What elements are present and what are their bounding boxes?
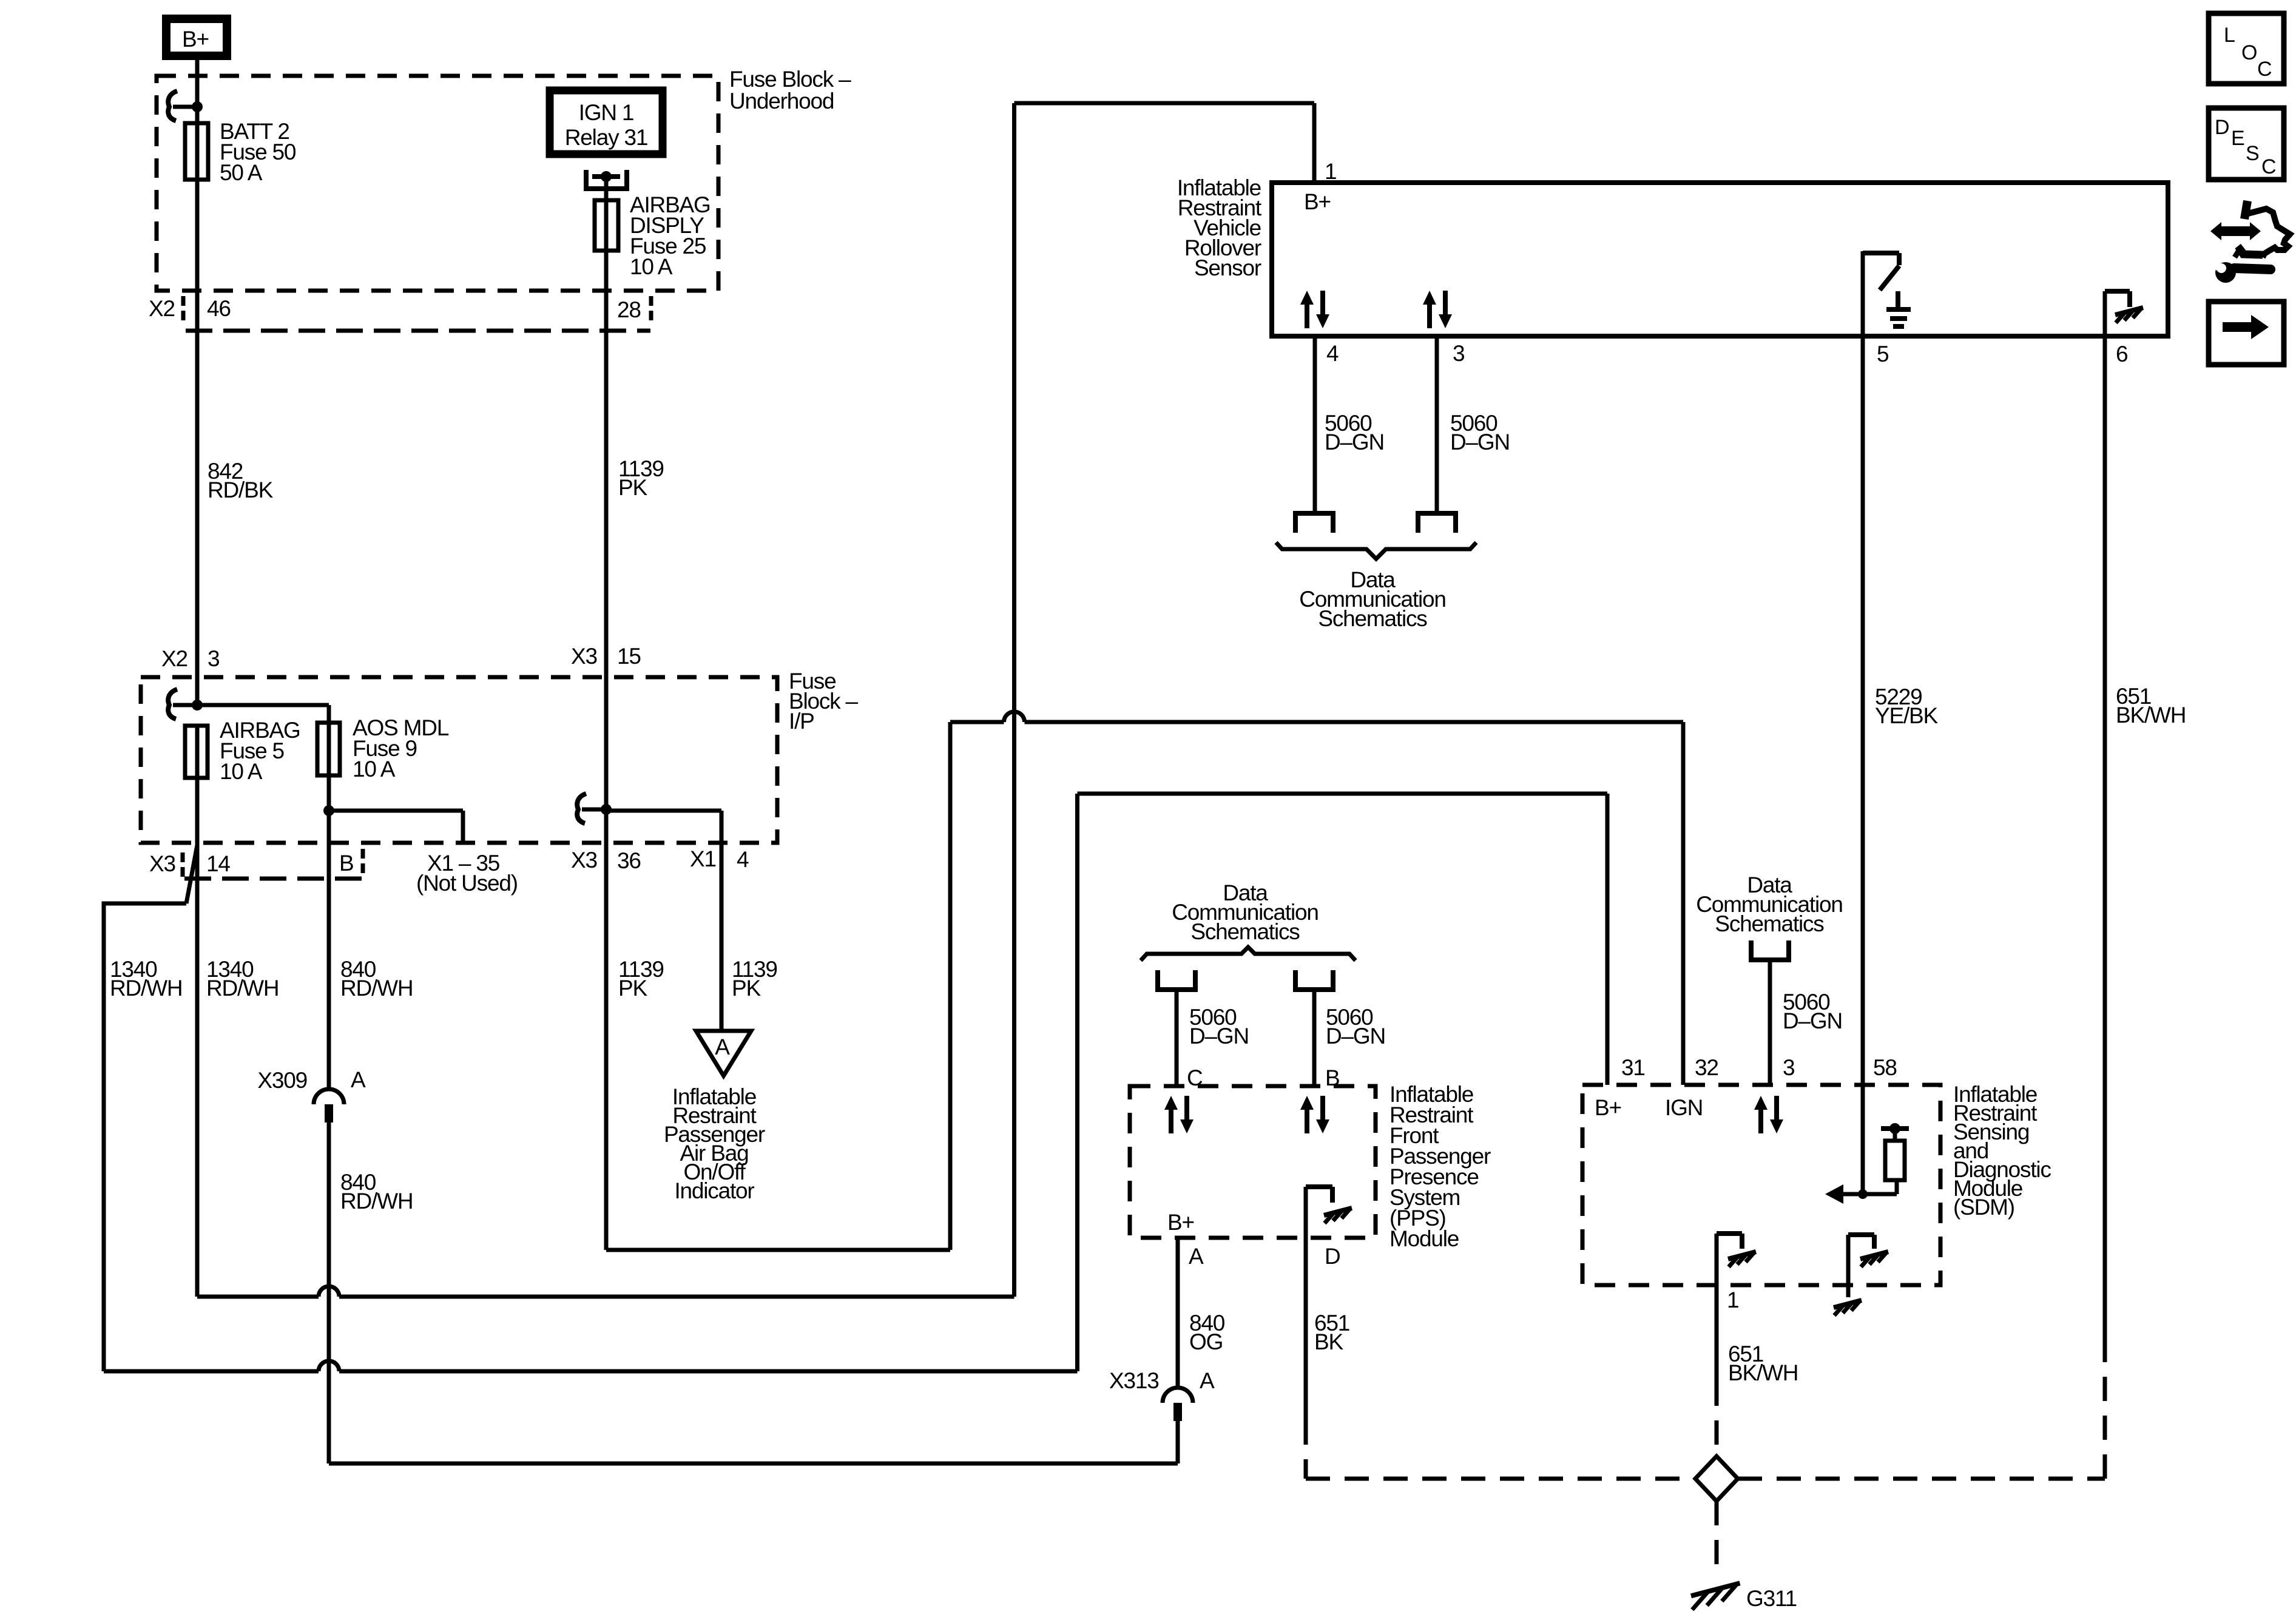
- wire 1340 RD/WH left branch: [104, 903, 186, 1371]
- label 1340 RD/WH (second): [206, 957, 279, 1001]
- node junction dot SDM resistor: [1858, 1189, 1868, 1199]
- pin 3 label SDM: [1783, 1055, 1794, 1080]
- fuse AIRBAG Fuse 5 10A: [185, 726, 208, 778]
- svg-text:B: B: [1325, 1065, 1339, 1090]
- clean ground symbol inside rollover sensor: [1886, 291, 1911, 326]
- svg-text:(Not Used): (Not Used): [416, 871, 518, 896]
- label X1-35 not used: [416, 851, 518, 896]
- wire 842 from B+ to BATT 2 fuse: [195, 60, 200, 123]
- pin tick X2 left: [181, 296, 186, 323]
- svg-text:L: L: [2224, 24, 2235, 47]
- wire diagonal at pin X3-14: [186, 845, 197, 903]
- wire 651 BK/WH pin 6 down: [2103, 336, 2107, 1354]
- label pin B: [339, 851, 353, 876]
- label B+ inside SDM: [1595, 1095, 1621, 1120]
- label X313 pin A: [1109, 1368, 1215, 1393]
- svg-text:G311: G311: [1746, 1586, 1797, 1611]
- label X2 pin 3: [161, 646, 219, 671]
- switch symbol inside rollover sensor: [1863, 251, 1899, 336]
- arrows serial data PPS C: [1164, 1096, 1194, 1133]
- pin 1 label rollover: [1325, 159, 1336, 184]
- wire 5060 to PPS pin B: [1312, 990, 1317, 1086]
- svg-text:RD/WH: RD/WH: [110, 976, 182, 1001]
- inline connector X309: [314, 1089, 344, 1122]
- clip connector at B+ junction: [168, 91, 197, 121]
- wire branch 1139 to pin X1-4: [606, 811, 721, 1031]
- label rollover sensor name: [1177, 175, 1262, 280]
- wire 651 BK PPS pin D down: [1304, 1238, 1308, 1420]
- ground loop 2 inside SDM: [1834, 1235, 1888, 1315]
- svg-text:C: C: [2261, 155, 2276, 178]
- wire 1139 PK (fuse 25 to I/P block): [604, 251, 609, 809]
- svg-text:C: C: [1187, 1065, 1203, 1090]
- wire 840 OG PPS pin A to X313: [1176, 1238, 1180, 1388]
- svg-text:OG: OG: [1189, 1329, 1223, 1354]
- svg-text:X3: X3: [571, 848, 597, 873]
- label 5060 D-GN (pin3): [1450, 411, 1510, 454]
- svg-text:A: A: [1200, 1368, 1215, 1393]
- icon DESC box: [2209, 108, 2284, 180]
- wire 840 RD/WH AOS to X309: [327, 775, 331, 1089]
- svg-text:10 A: 10 A: [220, 759, 263, 784]
- ground loop 1 inside SDM (pin 1): [1717, 1234, 1756, 1285]
- svg-text:15: 15: [617, 644, 641, 669]
- wire 1340 RD/WH straight branch: [195, 778, 200, 1297]
- wire 651 BK/WH from SDM pin 1: [1715, 1285, 1719, 1382]
- node junction dot on 842 wire: [192, 101, 203, 112]
- wire 1340 run vertical up: [1012, 103, 1016, 1297]
- icon right arrow box: [2209, 302, 2284, 365]
- svg-text:A: A: [715, 1035, 730, 1059]
- svg-text:3: 3: [1453, 341, 1464, 366]
- label B+ inside PPS: [1167, 1210, 1194, 1235]
- svg-text:4: 4: [1326, 341, 1339, 366]
- svg-text:BK/WH: BK/WH: [2116, 703, 2186, 727]
- label X3 pin 14: [149, 851, 230, 876]
- node junction dot (1139 to X1-4 branch): [601, 804, 612, 815]
- svg-text:B+: B+: [1595, 1095, 1621, 1120]
- node junction dot on 840 wire: [323, 805, 334, 816]
- icon double arrow with wrench: [2210, 201, 2290, 283]
- dashed wire splice to G311: [1715, 1501, 1719, 1578]
- fuse AIRBAG DISPLY Fuse 25 10A: [595, 200, 618, 251]
- module SDM dashed box: [1582, 1085, 1940, 1285]
- wire branch to AOS MDL fuse: [197, 705, 329, 723]
- pin 28 label: [617, 297, 641, 322]
- svg-text:B+: B+: [1304, 189, 1331, 214]
- label Data Communication Schematics (SDM): [1696, 873, 1842, 936]
- svg-text:O: O: [2241, 41, 2257, 64]
- splice diamond: [1695, 1456, 1738, 1501]
- svg-text:3: 3: [1783, 1055, 1794, 1080]
- label Inflatable Restraint Front Passenger Presence System (PPS) Module: [1389, 1082, 1491, 1251]
- svg-text:Fuse Block –: Fuse Block –: [729, 67, 851, 92]
- svg-text:X313: X313: [1109, 1368, 1159, 1393]
- pin tick B right: [361, 849, 365, 874]
- label Data Communication Schematics (PPS): [1172, 880, 1318, 944]
- wire 5229 YE/BK pin 5 to SDM 58: [1861, 336, 1865, 1085]
- label 1139 PK (upper): [618, 456, 664, 500]
- svg-text:RD/BK: RD/BK: [208, 478, 274, 502]
- svg-text:Schematics: Schematics: [1715, 911, 1824, 936]
- wire 1340 run down to SDM pin 31: [1606, 794, 1610, 1085]
- svg-text:6: 6: [2116, 342, 2127, 366]
- wire 840 RD/WH below X309: [327, 1122, 331, 1463]
- inline connector X313: [1163, 1388, 1193, 1421]
- dashed wire 651 BK/WH to splice: [1715, 1382, 1719, 1456]
- label 5060 D-GN (pin4): [1325, 411, 1384, 454]
- svg-text:D–GN: D–GN: [1450, 430, 1510, 454]
- label X3 pin 15: [571, 644, 641, 669]
- wire stub to pin X1-35 not used: [329, 811, 463, 843]
- fuse AOS MDL Fuse 9 10A: [317, 723, 340, 775]
- wire 5060 to SDM pin 3: [1768, 960, 1772, 1085]
- svg-text:RD/WH: RD/WH: [206, 976, 279, 1001]
- label Data Communication Schematics (top): [1299, 567, 1445, 631]
- pin 32 label SDM: [1695, 1055, 1718, 1080]
- label BATT 2 Fuse 50 50 A: [220, 119, 296, 185]
- pin tick X3-14 left: [181, 852, 185, 878]
- svg-text:Module: Module: [1389, 1226, 1459, 1251]
- wire 1340 run top to pin 1: [1015, 103, 1315, 183]
- label AIRBAG DISPLY Fuse 25 10 A: [630, 192, 711, 279]
- relay IGN 1 Relay 31 box: [550, 90, 663, 154]
- connector strip X2 row dashed line: [186, 329, 650, 333]
- arrows serial data PPS B: [1300, 1096, 1329, 1133]
- svg-text:Sensor: Sensor: [1194, 255, 1261, 280]
- wire 1139 across y2060: [606, 1248, 950, 1252]
- svg-text:58: 58: [1873, 1055, 1897, 1080]
- svg-text:X3: X3: [149, 851, 175, 876]
- fuse BATT 2 Fuse 50 50A: [185, 123, 208, 180]
- label Inflatable Restraint Passenger Air Bag On/Off Indicator: [664, 1084, 765, 1203]
- svg-text:BK/WH: BK/WH: [1728, 1360, 1798, 1385]
- svg-text:PK: PK: [618, 976, 647, 1001]
- svg-text:D–GN: D–GN: [1325, 430, 1384, 454]
- clip connector at 1139 junction: [577, 794, 606, 823]
- label 5060 D-GN (PPS C): [1189, 1005, 1249, 1048]
- wire 842 RD/BK (fuse 50 to I/P block): [195, 180, 200, 705]
- label Fuse Block - I/P: [789, 669, 859, 734]
- pin C label PPS: [1187, 1065, 1203, 1090]
- wire 840 below X313 to bottom run: [329, 1421, 1178, 1463]
- node junction dot (842 to AOS MDL branch): [192, 700, 203, 711]
- label 5229 YE/BK: [1875, 684, 1939, 728]
- label 651 BK/WH (SDM): [1728, 1342, 1798, 1385]
- svg-text:(SDM): (SDM): [1953, 1195, 2014, 1220]
- label IGN inside SDM: [1665, 1095, 1703, 1120]
- pin D label PPS: [1325, 1244, 1340, 1269]
- svg-text:10 A: 10 A: [630, 254, 673, 279]
- label 651 BK: [1314, 1311, 1349, 1354]
- arrows serial data pin 4: [1300, 291, 1329, 328]
- svg-text:X1: X1: [690, 846, 716, 871]
- brace to data communication schematics (top): [1276, 542, 1476, 559]
- label 840 RD/WH (lower): [340, 1170, 413, 1214]
- svg-text:5: 5: [1877, 342, 1889, 366]
- svg-text:D–GN: D–GN: [1783, 1008, 1842, 1033]
- svg-text:YE/BK: YE/BK: [1875, 703, 1939, 728]
- svg-text:C: C: [2257, 58, 2272, 81]
- dashed wire 651 BK to ground junction: [1306, 1420, 1695, 1479]
- pin tick X2 right: [649, 296, 653, 324]
- svg-text:D–GN: D–GN: [1326, 1024, 1385, 1048]
- svg-text:Schematics: Schematics: [1318, 606, 1427, 631]
- svg-text:IGN 1: IGN 1: [579, 100, 634, 125]
- svg-text:4: 4: [737, 847, 749, 872]
- fuse block underhood dashed box: [157, 76, 718, 291]
- wire 5060 pin 4 to DLC terminal: [1313, 336, 1317, 513]
- svg-text:Relay 31: Relay 31: [565, 125, 647, 150]
- chassis ground inside rollover sensor pin 6: [2105, 291, 2143, 336]
- arrow into deployment loop (SDM): [1825, 1184, 1897, 1204]
- wire 1340 run up to y1308: [1075, 794, 1079, 1371]
- power symbol B+ box: [166, 19, 227, 56]
- pin 1 label SDM: [1727, 1288, 1738, 1312]
- wire 1340 run to rollover B+ (horizontal): [197, 1295, 1015, 1299]
- resistor inside SDM: [1881, 1123, 1909, 1194]
- wire 1340 run across y1308: [1078, 792, 1608, 796]
- svg-text:A: A: [351, 1067, 366, 1092]
- svg-text:A: A: [1189, 1244, 1204, 1269]
- label X309 pin A: [257, 1067, 366, 1093]
- svg-text:28: 28: [617, 297, 641, 322]
- label 1340 RD/WH (left): [110, 957, 182, 1001]
- brace to data communication schematics (PPS): [1141, 947, 1356, 960]
- label 840 RD/WH (upper): [340, 957, 413, 1001]
- arrows serial data SDM pin 3: [1754, 1096, 1783, 1133]
- label Inflatable Restraint Sensing and Diagnostic Module (SDM): [1953, 1082, 2051, 1220]
- svg-text:32: 32: [1695, 1055, 1718, 1080]
- svg-text:X3: X3: [571, 644, 597, 669]
- pin 31 label SDM: [1621, 1055, 1645, 1080]
- label X3 pin 36: [571, 848, 641, 873]
- svg-text:10 A: 10 A: [353, 757, 396, 781]
- DLC terminal SDM: [1749, 940, 1791, 960]
- label AOS MDL Fuse 9 10 A: [353, 715, 449, 781]
- fuse block I/P dashed box: [141, 677, 777, 843]
- DLC terminal pin 4: [1293, 513, 1335, 533]
- relay output connector bracket: [584, 170, 629, 200]
- svg-text:D: D: [1325, 1244, 1340, 1269]
- pin 6 label rollover: [2116, 342, 2127, 366]
- label 1139 PK at X1-4 branch: [732, 957, 777, 1001]
- label 840 OG: [1189, 1311, 1225, 1354]
- wire 1139 down to SDM pin 32: [1681, 722, 1686, 1085]
- label 5060 D-GN (SDM): [1783, 990, 1842, 1033]
- svg-text:X309: X309: [257, 1068, 307, 1093]
- label B+ inside rollover box: [1304, 189, 1331, 214]
- wire 1139 across y1190 with hop: [950, 712, 1683, 722]
- label Fuse Block - Underhood: [729, 67, 851, 113]
- svg-text:I/P: I/P: [789, 709, 814, 734]
- module Inflatable Restraint Vehicle Rollover Sensor box: [1272, 183, 2168, 336]
- svg-text:Underhood: Underhood: [729, 89, 834, 113]
- svg-text:BK: BK: [1314, 1329, 1343, 1354]
- ground G311: [1691, 1583, 1797, 1611]
- svg-text:50 A: 50 A: [220, 160, 263, 185]
- wire 5060 pin 3 to DLC terminal: [1435, 336, 1439, 513]
- DLC terminal PPS B: [1293, 970, 1335, 990]
- svg-text:PK: PK: [618, 475, 647, 500]
- svg-text:36: 36: [617, 848, 641, 873]
- svg-text:RD/WH: RD/WH: [340, 1189, 413, 1214]
- label X1 pin 4: [690, 846, 749, 872]
- svg-text:14: 14: [206, 851, 230, 876]
- chassis ground inside PPS: [1306, 1187, 1352, 1238]
- wire 1139 down to y2060: [604, 811, 609, 1250]
- svg-text:46: 46: [207, 296, 231, 321]
- svg-text:E: E: [2231, 127, 2244, 150]
- wire 5060 to PPS pin C: [1175, 990, 1179, 1086]
- label X2 (row 46/28): [149, 296, 175, 321]
- DLC terminal PPS C: [1155, 970, 1198, 990]
- pin 5 label rollover: [1877, 342, 1889, 366]
- svg-text:Schematics: Schematics: [1190, 919, 1300, 944]
- svg-text:3: 3: [208, 646, 219, 671]
- connector strip X3-14/B dashed line: [184, 877, 364, 881]
- svg-text:S: S: [2246, 142, 2259, 165]
- arrows serial data pin 3: [1423, 291, 1452, 328]
- pin A label PPS: [1189, 1244, 1204, 1269]
- indicator feed wire 1139 PK: [618, 957, 664, 1001]
- indicator triangle A: [696, 1031, 751, 1076]
- pin B label PPS: [1325, 1065, 1339, 1090]
- svg-text:1: 1: [1727, 1288, 1738, 1312]
- pin 3 label rollover: [1453, 341, 1464, 366]
- label AIRBAG Fuse 5 10 A: [220, 718, 300, 784]
- module PPS dashed box: [1130, 1086, 1376, 1238]
- pin 46 label: [207, 296, 231, 321]
- svg-text:D–GN: D–GN: [1189, 1024, 1249, 1048]
- label 5060 D-GN (PPS B): [1326, 1005, 1385, 1048]
- wire pin 58 inside SDM: [1861, 1085, 1865, 1194]
- svg-text:IGN: IGN: [1665, 1095, 1703, 1120]
- svg-text:X2: X2: [149, 296, 175, 321]
- pin 4 label rollover: [1326, 341, 1339, 366]
- wire 1340 run to SDM B+ (horizontal): [104, 1369, 1078, 1374]
- pin 58 label SDM: [1873, 1055, 1897, 1080]
- dashed wire riser to 651 BK/WH: [2103, 1354, 2107, 1479]
- wire hop over 840 wire (y2137): [319, 1286, 339, 1297]
- wire hop over 840 wire (y2260): [319, 1361, 339, 1371]
- icon LOC box: [2209, 13, 2284, 84]
- svg-text:D: D: [2215, 116, 2229, 139]
- svg-text:RD/WH: RD/WH: [340, 976, 413, 1001]
- svg-text:1: 1: [1325, 159, 1336, 184]
- label 842 RD/BK: [208, 459, 274, 502]
- svg-text:B+: B+: [1167, 1210, 1194, 1235]
- svg-text:X2: X2: [161, 646, 187, 671]
- clip connector at AOS junction: [168, 689, 197, 719]
- DLC terminal pin 3: [1416, 513, 1458, 533]
- svg-text:Indicator: Indicator: [674, 1178, 754, 1203]
- svg-text:B+: B+: [182, 27, 209, 52]
- wire 1139 up to y1190: [948, 722, 953, 1250]
- svg-text:31: 31: [1621, 1055, 1645, 1080]
- dashed wire splice to 651 right riser: [1738, 1477, 2105, 1481]
- label 651 BK/WH (right): [2116, 684, 2186, 727]
- svg-text:PK: PK: [732, 976, 761, 1001]
- svg-text:B: B: [339, 851, 353, 876]
